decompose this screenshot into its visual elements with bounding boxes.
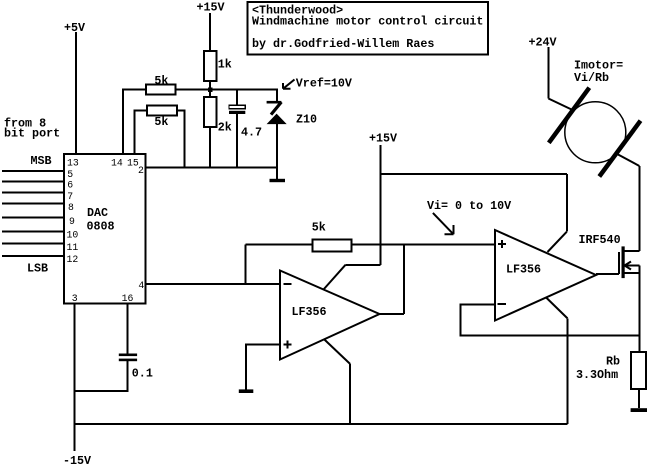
svg-text:4.7: 4.7 [241, 125, 262, 139]
svg-text:5k: 5k [312, 221, 326, 235]
+15V supply label (top) [197, 1, 225, 15]
ground (below Z10) [270, 179, 286, 182]
transistor Q1 IRF540 [579, 233, 640, 278]
node junction dot [208, 88, 213, 93]
wire 5k to Vref node [176, 89, 279, 91]
wire data bit 4 (pin 8) [2, 203, 64, 205]
wire U2 V+ supply [324, 265, 381, 290]
wire capacitor to pin3 column [75, 361, 128, 391]
wire DAC pin 16 to capacitor [127, 304, 129, 354]
wire drain up to motor [638, 166, 640, 251]
wire DAC pin 4 to op-amp U2 inverting input [146, 283, 281, 285]
wire Rb to ground [638, 389, 640, 408]
svg-text:bit port: bit port [4, 127, 60, 141]
wire U3 output to gate [596, 273, 619, 275]
-15V rail [75, 423, 568, 425]
wire U3 - input feedback loop [460, 304, 639, 335]
capacitor 0.1 [119, 354, 153, 381]
+24V supply label [529, 36, 557, 50]
ground (below Rb) [631, 408, 647, 412]
wire +15V mid label stem [369, 132, 397, 146]
motor shaft slash (lower right) [599, 121, 640, 177]
wire DAC pin15 to 5k [135, 111, 147, 155]
svg-text:5k: 5k [154, 74, 168, 88]
capacitor 4.7 [229, 90, 262, 169]
resistor Rb 3.3Ohm [576, 352, 646, 389]
wire data bit 6 (pin 10) [2, 230, 64, 232]
wire 2k bottom to pin2 rail [209, 127, 211, 168]
svg-text:2k: 2k [218, 120, 232, 134]
svg-text:1k: 1k [218, 58, 232, 72]
svg-text:5k: 5k [154, 115, 168, 129]
U3 inverting input symbol [498, 303, 506, 305]
resistor 5k (pin 14) [146, 74, 176, 95]
svg-text:13: 13 [67, 158, 79, 169]
wire +15V to R 1k [209, 13, 211, 51]
wire DAC pin 3 to -15V rail [74, 304, 76, 452]
svg-text:9: 9 [69, 216, 75, 227]
svg-text:0.1: 0.1 [132, 366, 153, 380]
wire motor to drain [617, 154, 640, 166]
svg-text:3.3Ohm: 3.3Ohm [576, 368, 618, 382]
wire 1k bottom to node [209, 81, 211, 97]
Imotor label [574, 59, 623, 86]
svg-text:Vref=10V: Vref=10V [296, 76, 352, 90]
svg-text:-15V: -15V [63, 454, 91, 468]
svg-text:LF356: LF356 [506, 263, 541, 277]
resistor 2k [204, 97, 232, 134]
svg-text:LSB: LSB [27, 262, 48, 276]
op-amp U3 LF356 [495, 230, 596, 321]
wire feedback right / Vi line [351, 244, 495, 246]
svg-text:Rb: Rb [606, 354, 620, 368]
wire U2 output [380, 313, 405, 315]
svg-text:0808: 0808 [87, 220, 115, 234]
U2 non-inverting input symbol [284, 341, 292, 349]
wire data bit 2 (pin 6) [2, 180, 64, 182]
svg-text:8: 8 [68, 202, 74, 213]
wire U2 V- supply [325, 340, 350, 424]
svg-text:+15V: +15V [369, 132, 397, 146]
MSB label [31, 154, 52, 168]
motor shaft slash (upper left) [549, 88, 590, 143]
svg-text:10: 10 [67, 230, 79, 241]
wire +15V vertical [380, 145, 382, 265]
wire data bit 5 (pin 9) [2, 217, 64, 219]
wire DAC pin14 to 5k [123, 90, 146, 155]
wire output riser [403, 245, 405, 314]
wire +5V to DAC pin 13 [75, 32, 77, 154]
motor M [565, 102, 626, 163]
svg-text:Vi= 0 to 10V: Vi= 0 to 10V [427, 199, 511, 213]
wire source down to Rb [638, 266, 640, 352]
-15V supply label [63, 454, 91, 468]
resistor 5k feedback [312, 221, 352, 252]
resistor 1k [204, 51, 232, 81]
wire U3 V- supply [546, 297, 568, 424]
svg-text:Vi/Rb: Vi/Rb [574, 71, 609, 85]
wire data bit 3 (pin 7) [2, 192, 64, 194]
Vi label [427, 199, 511, 213]
LSB label [27, 262, 48, 276]
wire 5k to pin2 rail [177, 111, 185, 169]
svg-text:16: 16 [122, 293, 134, 304]
svg-text:+15V: +15V [197, 1, 225, 15]
U2 inverting input symbol [284, 283, 292, 285]
+15V rail to U3 [381, 173, 567, 175]
svg-text:+24V: +24V [529, 36, 557, 50]
svg-text:2: 2 [138, 165, 144, 176]
zener Z10 [267, 90, 317, 179]
svg-text:12: 12 [67, 254, 79, 265]
svg-text:3: 3 [72, 293, 78, 304]
svg-text:6: 6 [67, 180, 73, 191]
Vi arrow [433, 213, 454, 234]
wire data bit 1 (pin 5) [2, 170, 64, 172]
svg-text:LF356: LF356 [292, 305, 327, 319]
Vref label [296, 76, 352, 90]
svg-text:7: 7 [67, 191, 73, 202]
wire U3 V+ supply [548, 174, 567, 252]
wire pin2 rail [146, 167, 278, 169]
wire +24V to motor [548, 47, 573, 110]
svg-text:IRF540: IRF540 [579, 233, 621, 247]
op-amp U2 LF356 [280, 271, 380, 360]
svg-text:Z10: Z10 [296, 113, 317, 127]
wire U2 + input to ground [246, 345, 280, 390]
svg-text:MSB: MSB [31, 154, 52, 168]
U3 non-inverting input symbol [498, 240, 506, 248]
resistor 5k (pin 15) [147, 106, 177, 130]
DAC 0808 U1 [64, 154, 146, 304]
svg-text:14: 14 [111, 158, 123, 169]
port label [4, 116, 60, 140]
title box [247, 2, 488, 55]
wire feedback junction [245, 245, 247, 285]
wire data bit 8 (pin 12) [2, 255, 64, 257]
wire data bit 7 (pin 11) [2, 243, 64, 245]
svg-text:by dr.Godfried-Willem Raes: by dr.Godfried-Willem Raes [252, 37, 434, 51]
+5V supply label [64, 21, 85, 35]
svg-text:Windmachine motor control circ: Windmachine motor control circuit [252, 15, 483, 29]
Vref arrow [283, 80, 295, 89]
svg-text:11: 11 [67, 242, 79, 253]
svg-text:DAC: DAC [87, 206, 108, 220]
wire feedback left [246, 244, 313, 246]
svg-text:4: 4 [138, 280, 144, 291]
ground (U2 + input) [239, 389, 254, 393]
svg-text:+5V: +5V [64, 21, 85, 35]
